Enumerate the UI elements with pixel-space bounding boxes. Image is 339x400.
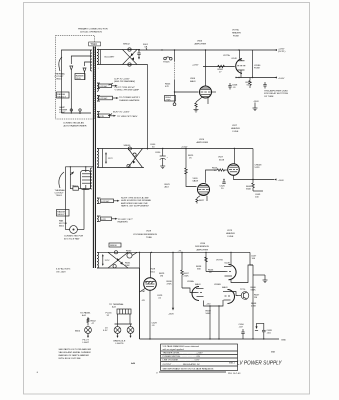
wire: +225V to V677A grid xyxy=(203,66,235,68)
svg-text:56K: 56K xyxy=(197,269,201,271)
heater tap group 3 (6.3V CRT) xyxy=(97,112,138,119)
range selector box (lower) xyxy=(57,210,70,217)
svg-text:TO V627, V677: TO V627, V677 xyxy=(118,219,134,221)
svg-text:SR640: SR640 xyxy=(124,145,131,147)
wire: V626 grid from left xyxy=(186,183,197,187)
graticule lights circuit xyxy=(103,303,132,332)
svg-text:6.3V: 6.3V xyxy=(100,116,105,118)
thermal switch TK605 symbol xyxy=(163,57,172,64)
bridge rectifier SR630 xyxy=(97,251,140,268)
svg-text:TK601: TK601 xyxy=(56,195,63,197)
resistor R679 xyxy=(246,78,252,89)
capacitor C647 xyxy=(250,252,257,339)
title block voltage readings xyxy=(161,344,238,371)
svg-text:5651: 5651 xyxy=(150,272,156,274)
svg-text:HEATER: HEATER xyxy=(226,232,235,235)
svg-text:560K: 560K xyxy=(251,290,257,292)
wire: V636A grid xyxy=(182,288,197,293)
note: parts list reference xyxy=(59,348,92,360)
wire: V666 plate up to rail xyxy=(205,50,207,86)
label +225V (decoupled) arrow xyxy=(274,49,285,54)
tube V677B 6DJ8 (half) xyxy=(216,260,236,280)
svg-text:115V AC OPERATION: 115V AC OPERATION xyxy=(80,31,102,34)
note: line hum text block xyxy=(120,197,152,208)
ground: below LP686 drop xyxy=(253,103,258,111)
svg-text:TO TERMINAL: TO TERMINAL xyxy=(109,303,124,306)
capacitor C668 xyxy=(228,83,238,90)
svg-text:6.3V AC: 6.3V AC xyxy=(99,85,107,88)
primary enclosure (dashed box) xyxy=(56,36,95,120)
secondary winding S1 (HV top) xyxy=(97,50,99,65)
svg-text:6DJ8: 6DJ8 xyxy=(219,160,225,162)
svg-text:O: O xyxy=(156,373,158,375)
wire: V677B cathode to C647 xyxy=(231,265,253,283)
svg-text:6AU8: 6AU8 xyxy=(193,180,199,183)
svg-text:SEE IMPORTANT NOTE ON VOLTAGE: SEE IMPORTANT NOTE ON VOLTAGE READINGS xyxy=(163,367,214,370)
svg-text:560K: 560K xyxy=(246,189,252,191)
svg-text:220K: 220K xyxy=(184,276,190,278)
svg-text:V677B: V677B xyxy=(216,260,223,262)
svg-text:V629: V629 xyxy=(146,231,152,233)
svg-text:TRIGGER LEVEL . . . . . . . .: TRIGGER LEVEL . . . . . . . . . . . . . … xyxy=(163,353,204,355)
svg-text:C630: C630 xyxy=(155,152,161,154)
svg-text:SELECT: SELECT xyxy=(57,96,66,98)
diode CR648 xyxy=(253,149,262,180)
svg-text:V629: V629 xyxy=(150,269,156,271)
svg-text:V626: V626 xyxy=(199,139,205,141)
svg-text:60 CYCLE FAN: 60 CYCLE FAN xyxy=(64,237,80,240)
svg-text:V626: V626 xyxy=(193,178,199,180)
note: primary connection header xyxy=(78,28,108,34)
resistor R637 xyxy=(181,252,190,288)
heater tap group 2 (6.3V AC heaters) xyxy=(97,96,140,102)
svg-text:VOLTAGE REFERENCE: VOLTAGE REFERENCE xyxy=(133,233,158,236)
svg-text:SELECT: SELECT xyxy=(57,214,66,216)
fuse F643 (on bottom wire) xyxy=(128,63,131,66)
transformer T620 label xyxy=(89,42,101,46)
wire: V629 left loop xyxy=(140,289,146,340)
svg-text:6.3V AC: 6.3V AC xyxy=(99,97,107,100)
svg-text:270K: 270K xyxy=(166,100,172,102)
resistor R664 label (boxed) xyxy=(165,96,176,102)
wires to lamps xyxy=(117,314,119,324)
svg-text:6DJ8: 6DJ8 xyxy=(225,263,231,265)
svg-text:HUM SOURCE FOR NORMAL: HUM SOURCE FOR NORMAL xyxy=(121,199,152,202)
wire: middle +100V rail feed xyxy=(144,148,253,150)
title block footnote xyxy=(159,371,226,373)
wire: V629 cathode down xyxy=(149,290,151,339)
svg-text:RANGE: RANGE xyxy=(57,210,65,213)
leader arc to thermal cutout xyxy=(59,57,62,71)
svg-text:TO POWER SUPPLY: TO POWER SUPPLY xyxy=(119,97,140,99)
svg-text:TK601: TK601 xyxy=(56,79,63,81)
secondary winding S2 (middle) xyxy=(97,149,99,168)
svg-text:6.3V: 6.3V xyxy=(101,219,106,221)
svg-text:with no signal applied.: with no signal applied. xyxy=(163,348,185,351)
svg-text:FUSE: FUSE xyxy=(228,236,234,238)
label V673 heater fuse heading xyxy=(226,230,235,238)
resistor R626 xyxy=(185,149,194,184)
svg-text:FOR DELAY SECTIONS: FOR DELAY SECTIONS xyxy=(264,92,289,95)
transformer primary winding (upper) xyxy=(90,50,92,71)
svg-text:-150: -150 xyxy=(206,304,211,306)
wire: bottom ground rail xyxy=(140,338,280,340)
resistor R630 xyxy=(125,251,137,268)
lamp LP686 xyxy=(252,50,254,78)
svg-text:OF TUBE: OF TUBE xyxy=(264,96,274,98)
svg-text:(DCPL): (DCPL) xyxy=(278,51,286,53)
svg-text:AUTOTRANSFORMER: AUTOTRANSFORMER xyxy=(64,125,87,128)
svg-text:PRIMARY CONNECTED FOR: PRIMARY CONNECTED FOR xyxy=(78,28,108,31)
resistor R629 label xyxy=(159,273,165,278)
svg-text:6AU8: 6AU8 xyxy=(190,80,196,83)
svg-text:BLU-WHT: BLU-WHT xyxy=(105,57,116,59)
svg-text:470K: 470K xyxy=(251,306,257,308)
fan primary circuit wires xyxy=(65,166,93,225)
svg-text:56B: 56B xyxy=(271,352,275,354)
label +100V arrow xyxy=(274,77,285,81)
label R676 xyxy=(165,184,171,189)
wire: V636B grid to transistor xyxy=(231,292,239,296)
heater tap group 1 (6.3V AC pilot) xyxy=(97,83,118,91)
selector wiper arrow 1 xyxy=(70,66,73,70)
svg-text:PILOT TYPE 51P 47: PILOT TYPE 51P 47 xyxy=(115,86,136,89)
transformer T620 core xyxy=(93,47,95,269)
wire: cathodes joined xyxy=(204,300,224,306)
label fan motor xyxy=(59,220,68,228)
svg-text:GND: GND xyxy=(281,340,286,342)
svg-text:6.3V AC ELEV.: 6.3V AC ELEV. xyxy=(56,268,71,271)
ground: C630 xyxy=(160,166,165,169)
tube V626 6AU8 xyxy=(193,178,210,196)
resistor R638 xyxy=(196,266,202,271)
bridge rectifier SR640 xyxy=(97,145,144,167)
heater tap group 4 (6.3V AC preamp) xyxy=(97,198,120,204)
node: rail junctions xyxy=(161,49,162,50)
thermal cutout TK601 (lower) xyxy=(70,185,91,191)
svg-text:47K: 47K xyxy=(165,86,169,88)
fan winding (auto-transformer section) xyxy=(81,171,91,190)
svg-text:CONNECTED FOR: CONNECTED FOR xyxy=(64,236,84,238)
svg-text:LIGHT: LIGHT xyxy=(83,342,90,344)
wire: bottom pins bar xyxy=(61,112,91,114)
leader arc to TK601 xyxy=(59,172,64,188)
svg-text:117V: 117V xyxy=(105,260,110,262)
resistor R646 label xyxy=(205,252,226,274)
svg-text:V GRN, LPH GRN LAMP: V GRN, LPH GRN LAMP xyxy=(115,89,140,92)
svg-text:1M: 1M xyxy=(160,276,163,278)
svg-text:AA4: AA4 xyxy=(130,362,136,365)
tube V666 6AU8 xyxy=(190,78,216,98)
svg-text:HEATER: HEATER xyxy=(231,127,240,130)
svg-text:234V: 234V xyxy=(76,78,82,80)
svg-text:ON -150V: ON -150V xyxy=(56,272,66,274)
svg-text:CONNECTED AS AN: CONNECTED AS AN xyxy=(63,122,84,125)
svg-text:1M: 1M xyxy=(254,297,257,299)
svg-text:-150V: -150V xyxy=(168,314,174,316)
svg-text:TO V859 CRT CATH: TO V859 CRT CATH xyxy=(117,115,138,118)
secondary winding S3 (bottom) xyxy=(97,252,99,268)
svg-text:DIFFERENCE: DIFFERENCE xyxy=(195,246,210,248)
svg-text:CHASSIS HEATERS: CHASSIS HEATERS xyxy=(119,99,140,102)
wire: primary top lead xyxy=(61,50,91,113)
label V636 difference amplifier heading xyxy=(195,243,210,252)
svg-text:POWER SWITCH . . . . . . . .: POWER SWITCH . . . . . . . . . . . . . O… xyxy=(163,356,201,358)
capacitor C648a xyxy=(263,82,266,89)
svg-text:V677A: V677A xyxy=(232,29,239,32)
ground: V666 cathode xyxy=(194,110,199,113)
wire: primary tap leads inside box xyxy=(71,56,92,64)
tube V636B 6AU8 (half) xyxy=(214,284,235,304)
svg-text:TO PANEL: TO PANEL xyxy=(80,312,91,315)
resistor R647 labels xyxy=(251,287,261,308)
selector wiper arrow (fan tap) xyxy=(70,172,74,175)
svg-text:ADJ: ADJ xyxy=(165,186,169,189)
svg-text:117V: 117V xyxy=(108,158,113,160)
selector wiper arrow 2 xyxy=(83,68,86,72)
label +100V arrow (middle) xyxy=(274,179,285,183)
label V629 voltage reference heading xyxy=(133,231,158,240)
lamp B685 graticule xyxy=(114,327,121,338)
svg-text:SEE PARTS LIST FOR EARLIER: SEE PARTS LIST FOR EARLIER xyxy=(59,348,92,351)
svg-text:TP70: TP70 xyxy=(240,289,246,291)
resistor R627 below V626 xyxy=(196,196,207,204)
capacitor C650 on rail xyxy=(239,324,245,339)
svg-text:6.3V: 6.3V xyxy=(103,330,108,332)
svg-text:6.3V AC: 6.3V AC xyxy=(101,200,109,203)
svg-text:V636B: V636B xyxy=(214,284,221,286)
wire: top +225V rail xyxy=(138,49,277,51)
svg-text:OUTPUT . . . . . . . . . REGU: OUTPUT . . . . . . . . . REGULATED DC xyxy=(163,363,201,366)
svg-text:PLK 10-7-63: PLK 10-7-63 xyxy=(228,373,241,375)
lamp B600 pilot xyxy=(75,327,91,338)
svg-text:V677A: V677A xyxy=(223,54,230,57)
wire: V627 plate to rail xyxy=(233,149,235,164)
svg-text:LIGHTS: LIGHTS xyxy=(116,343,124,345)
label B630 (boxed) xyxy=(109,243,121,247)
label pilot light xyxy=(83,340,90,345)
svg-text:NOTE: THIS IS NOT A LINE: NOTE: THIS IS NOT A LINE xyxy=(121,197,149,200)
terminal: open circle below junction xyxy=(174,92,176,103)
svg-text:+100V: +100V xyxy=(278,180,285,182)
wire: +100V rail (second) xyxy=(236,77,277,79)
svg-text:-8V: -8V xyxy=(142,300,146,302)
svg-text:B600: B600 xyxy=(75,331,81,333)
svg-text:FUSE: FUSE xyxy=(233,131,239,133)
resistor R626 grid xyxy=(206,168,228,183)
wire: V627 cathode to +100V arrow xyxy=(234,175,275,179)
label graticule lights xyxy=(113,340,126,346)
svg-text:FUSE: FUSE xyxy=(233,36,239,38)
capacitor C630 (electrolytic) xyxy=(155,149,169,167)
resistor R649 xyxy=(246,180,254,192)
svg-text:PARTS LIST SUPPLEMENT: PARTS LIST SUPPLEMENT xyxy=(121,205,149,208)
svg-text:TK605: TK605 xyxy=(163,62,170,64)
svg-text:+100V: +100V xyxy=(278,78,285,80)
svg-text:560K: 560K xyxy=(206,313,212,315)
svg-text:R627: R627 xyxy=(199,200,205,202)
capacitor C642 xyxy=(137,50,140,60)
svg-text:ELEV TO +100V: ELEV TO +100V xyxy=(113,112,130,114)
svg-text:+100V: +100V xyxy=(181,147,188,149)
cathode network V666 xyxy=(195,97,208,109)
svg-text:(SEE PIN DIAGRAM): (SEE PIN DIAGRAM) xyxy=(114,80,135,83)
svg-text:T620: T620 xyxy=(90,42,97,46)
svg-text:470K: 470K xyxy=(167,284,173,286)
svg-text:V636: V636 xyxy=(200,243,206,245)
svg-text:RANGES OF PARTS MARKED: RANGES OF PARTS MARKED xyxy=(59,354,90,357)
voltage range box xyxy=(75,74,85,80)
svg-text:V673: V673 xyxy=(227,230,233,232)
capacitor C629 xyxy=(157,295,163,300)
svg-text:6AU8: 6AU8 xyxy=(195,283,201,286)
svg-text:VOLTAGE READINGS were obtained: VOLTAGE READINGS were obtained xyxy=(163,345,200,348)
svg-text:A-B: A-B xyxy=(111,306,116,309)
thermal cutout TK601 label xyxy=(55,73,66,81)
fuse F642 (on top wire) xyxy=(128,48,131,51)
transformer primary winding (lower, fan section) xyxy=(90,168,92,189)
svg-text:V666: V666 xyxy=(190,78,196,80)
power plug pins xyxy=(70,109,72,111)
wire: V677B plate to rail xyxy=(230,252,232,264)
svg-text:HEATER: HEATER xyxy=(232,32,241,35)
label C629 R629 (bottom) xyxy=(152,323,158,328)
pilot light circuit xyxy=(80,312,97,326)
svg-text:-150V: -150V xyxy=(253,101,259,103)
svg-text:AMPLIFIER: AMPLIFIER xyxy=(195,43,207,46)
svg-text:V666: V666 xyxy=(197,41,203,43)
svg-text:CLIP TO +100V: CLIP TO +100V xyxy=(114,79,130,81)
svg-text:6DJ8: 6DJ8 xyxy=(232,58,238,60)
svg-text:A-B: A-B xyxy=(81,314,86,317)
tube V636A 6AU8 (half) xyxy=(187,280,204,301)
svg-text:AMPLIFIER: AMPLIFIER xyxy=(197,248,209,251)
svg-text:LINE VOLTAGE . . . . . . . .: LINE VOLTAGE . . . . . . . . . . . . . 1… xyxy=(163,359,200,362)
capacitor C626 xyxy=(220,179,226,190)
svg-text:V627: V627 xyxy=(232,125,238,127)
capacitor C651 on rail xyxy=(255,323,273,339)
svg-text:THIS AMPLIFIER USED: THIS AMPLIFIER USED xyxy=(264,90,288,93)
wire: bridge bottom to left bus xyxy=(139,268,141,339)
lamp B686 graticule xyxy=(127,327,134,338)
resistor R668 xyxy=(218,65,225,68)
wire: -150V feed rail xyxy=(137,251,250,253)
motor B601 xyxy=(65,191,84,233)
node: grid junction xyxy=(174,91,175,92)
svg-text:V636A: V636A xyxy=(187,280,194,283)
svg-text:6AU8: 6AU8 xyxy=(222,286,228,289)
wire: +500V rail corner xyxy=(140,65,147,150)
svg-text:V627: V627 xyxy=(218,157,224,159)
wire: V666 grid from left xyxy=(175,91,199,93)
svg-text:56B-1: 56B-1 xyxy=(229,363,236,365)
range selector box xyxy=(57,92,70,98)
svg-text:VALUES AND SERIAL NUMBER: VALUES AND SERIAL NUMBER xyxy=(59,351,92,354)
svg-text:SR642: SR642 xyxy=(123,44,130,46)
bridge rectifier SR642 xyxy=(97,48,140,70)
svg-text:B601: B601 xyxy=(59,226,65,228)
resistor R639 xyxy=(206,311,212,316)
svg-text:SR630: SR630 xyxy=(110,245,117,247)
svg-text:AMPLIFIER: AMPLIFIER xyxy=(197,141,209,144)
ground: right of stage xyxy=(253,275,268,283)
label V627 heater fuse heading xyxy=(231,125,240,133)
svg-text:AMPLIFIER USE SEE THE: AMPLIFIER USE SEE THE xyxy=(120,202,148,205)
transistor Q647 xyxy=(238,289,249,300)
tube V627 6DJ8 xyxy=(228,164,240,176)
svg-text:+225V: +225V xyxy=(192,65,199,67)
label thermal cutout (lower) xyxy=(55,189,66,197)
svg-text:WITH BLUE OUTLINE.: WITH BLUE OUTLINE. xyxy=(59,358,82,360)
wire + label C649 xyxy=(253,191,263,199)
svg-text:R630: R630 xyxy=(126,251,132,253)
svg-text:LV POWER SUPPLY: LV POWER SUPPLY xyxy=(237,361,282,367)
tube V629 5651 xyxy=(144,252,157,290)
svg-text:TUBE: TUBE xyxy=(146,237,152,239)
resistor R636 470K xyxy=(167,252,175,315)
svg-text:FUSE: FUSE xyxy=(254,68,260,70)
wire: drop to V666 grid network xyxy=(174,50,176,61)
connector block xyxy=(117,309,131,314)
tube V677A 6DJ8 (half section) xyxy=(223,50,245,78)
svg-text:HEATERS: HEATERS xyxy=(118,221,129,224)
heater tap group 5 (6.3V to V627) xyxy=(97,216,133,224)
svg-text:5129: 5129 xyxy=(255,167,261,169)
